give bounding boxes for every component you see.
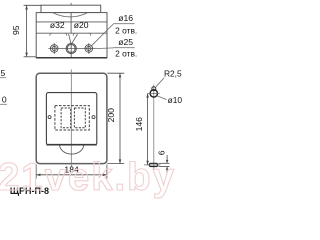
top view: lid bump [41, 5, 101, 12]
keyhole big circle ø10 [150, 90, 157, 97]
svg-text:0: 0 [2, 95, 7, 105]
keyhole small circle R2,5 [152, 87, 156, 91]
top centerline tick above bump [70, 3, 72, 5]
svg-text:2 отв.: 2 отв. [115, 49, 137, 59]
bottom slot [149, 163, 158, 166]
svg-text:146: 146 [134, 117, 144, 132]
dimension 146 [146, 93, 149, 164]
top view: knockout band line [36, 32, 107, 34]
top view: recess corner arcs [50, 33, 91, 36]
svg-text:21vek.by: 21vek.by [0, 156, 176, 199]
front view: dashed module area [55, 106, 89, 130]
svg-text:R2,5: R2,5 [164, 68, 182, 78]
svg-text:ø20: ø20 [74, 20, 89, 30]
left knockout circle [50, 43, 58, 54]
dimension 184 [36, 165, 107, 179]
top view: lid arc [53, 13, 87, 17]
leader to ø10 [157, 96, 167, 100]
front view: door window frame [46, 93, 96, 145]
leader V left [69, 34, 71, 43]
svg-text:200: 200 [106, 108, 116, 123]
svg-text:95: 95 [11, 25, 21, 35]
front view: dashed module right [74, 108, 85, 128]
svg-text:ø10: ø10 [168, 95, 183, 105]
leader to ø16 [92, 24, 114, 46]
leader to ø25 [95, 47, 113, 50]
svg-text:2 отв.: 2 отв. [115, 26, 137, 36]
leader to R2,5 [156, 78, 164, 87]
dimension 200 [107, 73, 124, 163]
svg-text:ø32: ø32 [50, 20, 65, 30]
slot horizontal centerline [144, 164, 161, 166]
top view: centerline lower [70, 43, 72, 57]
front view: vertical centerline [70, 70, 72, 168]
front view: dashed module left [61, 108, 71, 128]
top view: division line [36, 21, 107, 23]
keyhole centerline [153, 84, 155, 170]
top view: bold bottom edge [36, 57, 107, 59]
svg-text:ø16: ø16 [118, 13, 133, 23]
front view: frame bottom bold line [46, 144, 96, 146]
middle knockout circle (concentric) [66, 43, 76, 53]
front view: right screw [92, 116, 95, 119]
svg-text:6: 6 [157, 150, 166, 155]
right knockout circle [85, 43, 93, 54]
leader V right [72, 34, 78, 43]
top view: centerline upper [70, 13, 72, 33]
front view: bottom arc bulge [60, 145, 84, 154]
front view: left screw [48, 116, 51, 119]
keyhole horizontal centerline [148, 92, 160, 94]
svg-text:ø25: ø25 [118, 37, 133, 47]
dimension 6 [159, 155, 170, 173]
knockout circles horizontal centerline [48, 48, 95, 50]
top view: enclosure body outline [36, 13, 107, 58]
front view: outer case [36, 73, 107, 163]
svg-text:5: 5 [1, 68, 6, 78]
dimension 95 [24, 5, 42, 57]
